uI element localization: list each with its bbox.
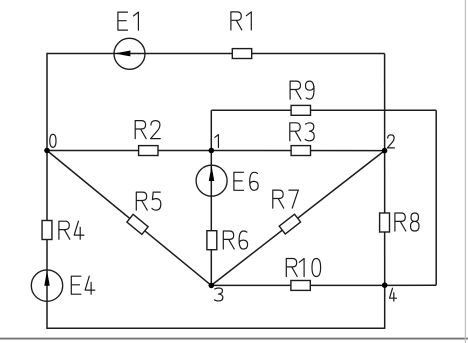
node 1 junction dot xyxy=(209,148,215,154)
label E1 xyxy=(118,12,138,30)
wire R10 horizontal node3-node4 xyxy=(211,284,436,286)
label R3 xyxy=(290,123,314,141)
wire secondary right vertical xyxy=(435,110,437,285)
label R8 xyxy=(395,213,419,231)
label E4 xyxy=(71,276,95,294)
frame border bottom xyxy=(0,338,468,340)
wire bottom xyxy=(47,327,385,329)
resistor R1 xyxy=(232,49,251,59)
source E6 xyxy=(196,165,227,196)
wire R5 diagonal node0-node3 xyxy=(47,151,211,286)
wire right vertical xyxy=(384,54,386,330)
label R10 xyxy=(286,259,320,277)
node 4 label xyxy=(390,288,397,301)
resistor R8 xyxy=(380,213,390,232)
label R6 xyxy=(223,231,247,249)
resistor R10 xyxy=(291,281,310,291)
resistor R7 (rotated on diagonal) xyxy=(279,214,300,234)
source E1 xyxy=(114,38,145,69)
node 3 junction dot xyxy=(209,283,215,289)
wire top (node0 top corner to node2 top corner) xyxy=(47,53,385,55)
node 0 junction dot xyxy=(44,148,50,154)
resistor R2 xyxy=(139,146,158,156)
node 2 junction dot xyxy=(382,148,388,154)
resistor R9 xyxy=(291,105,310,115)
source E4 xyxy=(31,270,62,301)
label R7 xyxy=(273,190,299,208)
node 1 label xyxy=(215,135,219,148)
node 3 label xyxy=(215,288,223,301)
node 4 junction dot xyxy=(382,282,388,288)
wire R7 diagonal node3-node2 xyxy=(211,151,384,286)
label R4 xyxy=(59,221,84,239)
frame border right xyxy=(464,0,466,343)
wire node1 stub up to R9 line xyxy=(210,110,212,150)
wire E6-R6 vertical node1-node3 xyxy=(210,151,212,286)
resistor R5 (rotated on diagonal) xyxy=(127,214,148,234)
wire middle horizontal node0-node1-node2 xyxy=(47,150,385,152)
resistor R6 xyxy=(207,231,217,250)
node 0 label xyxy=(50,134,56,147)
label R5 xyxy=(136,192,161,210)
resistor R4 xyxy=(42,221,52,240)
label R1 xyxy=(231,12,251,30)
node 2 label xyxy=(387,135,394,148)
label R9 xyxy=(290,81,314,99)
wire R9 horizontal xyxy=(211,109,436,111)
resistor R3 xyxy=(291,146,310,156)
label E6 xyxy=(234,172,258,190)
label R2 xyxy=(135,121,160,139)
wire left vertical xyxy=(46,53,48,329)
